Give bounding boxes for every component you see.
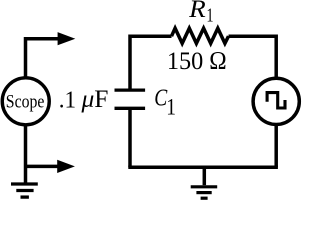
capacitor C1 top plate <box>115 88 146 91</box>
wire: left branch lower (capacitor to bottom-left corner) <box>128 110 132 167</box>
ground: circuit bottom center, bars <box>191 187 218 198</box>
svg-text:R: R <box>188 0 206 23</box>
ground: scope, bars <box>11 184 38 197</box>
label Scope <box>6 92 45 113</box>
label 150 Ohm value <box>167 48 227 75</box>
svg-text:1: 1 <box>166 95 176 120</box>
label C1 <box>154 86 176 120</box>
label R1 <box>188 0 213 27</box>
scope top lead wire and arrow shaft <box>26 39 59 79</box>
svg-text:1: 1 <box>206 6 213 27</box>
wire: top-right (resistor to corner, down to generator) <box>229 36 277 78</box>
svg-text:Scope: Scope <box>6 92 45 113</box>
svg-text:150: 150 <box>167 48 203 75</box>
scope bottom arrowhead <box>57 160 75 173</box>
scope top arrowhead <box>58 32 76 45</box>
svg-text:Ω: Ω <box>209 48 226 75</box>
scope circle <box>2 78 49 125</box>
wire: bottom (left corner to right corner) <box>128 166 278 170</box>
svg-text:μF: μF <box>80 86 108 113</box>
scope bottom lead wire (circle to ground) <box>24 124 28 182</box>
function generator circle <box>253 78 299 124</box>
label .1 uF value <box>59 86 109 113</box>
capacitor C1 bottom plate <box>115 107 146 110</box>
resistor R1 zigzag <box>172 28 229 43</box>
function generator square-wave symbol <box>267 93 285 108</box>
scope bottom arrow shaft <box>26 165 59 169</box>
ground: circuit bottom center, stem <box>203 167 207 185</box>
svg-text:.1: .1 <box>59 86 76 113</box>
wire: right branch lower (generator bottom to bottom wire) <box>274 124 278 167</box>
wire: left branch (capacitor to top-left corner to resistor) <box>130 36 172 88</box>
